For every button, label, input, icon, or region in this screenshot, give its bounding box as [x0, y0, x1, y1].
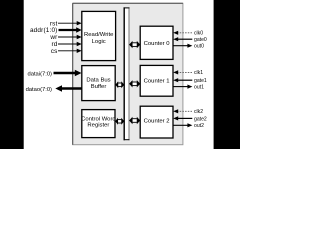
- svg-text:Read/Write: Read/Write: [84, 32, 114, 38]
- svg-text:out1: out1: [194, 84, 204, 90]
- svg-text:Counter 1: Counter 1: [144, 79, 170, 85]
- svg-text:cs: cs: [51, 48, 58, 55]
- svg-text:out0: out0: [194, 44, 204, 50]
- svg-text:wr: wr: [49, 34, 58, 41]
- svg-text:clk2: clk2: [194, 109, 203, 115]
- svg-text:clk1: clk1: [194, 70, 203, 76]
- svg-text:addr(1:0): addr(1:0): [30, 27, 58, 34]
- svg-text:gate2: gate2: [194, 116, 207, 122]
- svg-text:Counter 2: Counter 2: [144, 118, 170, 124]
- svg-text:gate0: gate0: [194, 37, 207, 43]
- svg-text:Data Bus: Data Bus: [86, 77, 110, 83]
- svg-text:Register: Register: [87, 123, 109, 129]
- svg-text:clk0: clk0: [194, 31, 203, 37]
- svg-text:Control Word: Control Word: [81, 117, 116, 123]
- svg-text:Counter 0: Counter 0: [144, 41, 171, 47]
- svg-text:Buffer: Buffer: [91, 84, 107, 90]
- svg-text:out2: out2: [194, 123, 204, 129]
- svg-text:datao(7:0): datao(7:0): [26, 87, 52, 93]
- svg-text:Logic: Logic: [92, 39, 106, 45]
- svg-text:gate1: gate1: [194, 78, 207, 84]
- svg-text:datai(7:0): datai(7:0): [28, 71, 53, 77]
